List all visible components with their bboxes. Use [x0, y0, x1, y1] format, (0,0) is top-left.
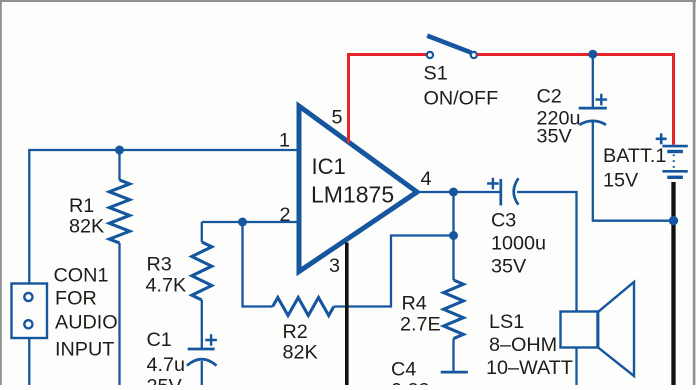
- battery positive + mark: [656, 133, 667, 144]
- svg-text:35V: 35V: [537, 126, 573, 148]
- node: output junction at pin 4: [449, 188, 458, 197]
- svg-text:1: 1: [279, 130, 290, 152]
- svg-text:C1: C1: [147, 329, 172, 351]
- wire: pin 4 output to C3: [417, 191, 501, 193]
- capacitor C1 (polarized, below R3): [188, 348, 215, 351]
- svg-text:4.7u: 4.7u: [147, 354, 186, 376]
- svg-text:4: 4: [421, 168, 432, 190]
- svg-text:C3: C3: [491, 210, 516, 232]
- resistor R4: [444, 280, 464, 339]
- label C4 0.22: [391, 359, 430, 390]
- label IC1 LM1875: [311, 154, 394, 208]
- svg-text:R1: R1: [69, 195, 94, 217]
- switch S1 (SPST, open): [427, 36, 471, 53]
- resistor R3: [201, 222, 203, 242]
- svg-text:2.7E: 2.7E: [400, 314, 441, 336]
- svg-text:AUDIO: AUDIO: [55, 312, 118, 334]
- resistor R1: [118, 150, 120, 180]
- label R1 82K: [69, 195, 104, 238]
- capacitor C3 (output coupling, polarized): [499, 179, 502, 206]
- svg-text:10–WATT: 10–WATT: [486, 357, 573, 379]
- svg-text:ON/OFF: ON/OFF: [424, 88, 499, 110]
- label C1 4.7u 25V: [147, 329, 186, 390]
- svg-text:0.22: 0.22: [391, 380, 430, 386]
- wire: battery negative (black) down page edge: [671, 182, 675, 385]
- loudspeaker LS1: [561, 282, 635, 376]
- battery BATT.1 15V: [662, 146, 687, 177]
- label C3 1000u 35V: [491, 210, 546, 278]
- wire: input net from CON1 up-right to op-amp pin 1: [29, 150, 300, 284]
- label LS1 8-OHM 10-WATT: [486, 311, 573, 379]
- label R2 82K: [283, 321, 318, 364]
- wire: C3 to loudspeaker: [517, 192, 577, 312]
- wire: pin 3 (black) down from op-amp: [345, 243, 349, 386]
- svg-text:35V: 35V: [491, 256, 527, 278]
- node: junction of C2 return on negative rail: [669, 216, 678, 225]
- connector CON1 (audio input socket): [12, 284, 48, 339]
- svg-text:C4: C4: [391, 359, 416, 381]
- wire: speaker return down (cut at page edge): [575, 348, 577, 386]
- svg-text:BATT.1: BATT.1: [603, 145, 666, 167]
- resistor R2: [273, 298, 334, 316]
- svg-text:1000u: 1000u: [491, 233, 546, 255]
- node: junction feedback/R4: [449, 231, 458, 240]
- label C2 220u 35V: [537, 86, 581, 148]
- label R3 4.7K: [146, 254, 187, 297]
- wire: red V+ from switch to battery positive: [477, 55, 673, 145]
- wire: pin 2 stub to R3/R2 junction: [202, 221, 300, 223]
- capacitor C4 (top plate, rest cut off at page edge): [441, 371, 468, 374]
- wire: C2 negative down and right to battery negative rail: [593, 121, 674, 221]
- wire: output node down to R4: [452, 192, 454, 280]
- svg-text:INPUT: INPUT: [55, 339, 114, 361]
- wire: red V+ from pin 5 up and right to switch S1: [349, 55, 427, 144]
- svg-text:3: 3: [329, 255, 340, 277]
- svg-text:R3: R3: [147, 254, 172, 276]
- svg-text:25V: 25V: [147, 376, 183, 386]
- svg-text:82K: 82K: [69, 216, 104, 238]
- svg-text:82K: 82K: [283, 342, 318, 364]
- svg-text:IC1: IC1: [312, 154, 346, 179]
- svg-text:FOR: FOR: [55, 288, 97, 310]
- wire: junction down-left to R2: [243, 222, 273, 307]
- svg-text:LS1: LS1: [489, 311, 524, 333]
- svg-text:8–OHM: 8–OHM: [489, 334, 557, 356]
- wire: CON1 lower pin going down (cut at page edge): [28, 338, 30, 385]
- label CON1 FOR AUDIO INPUT: [54, 265, 118, 361]
- label BATT.1 15V: [603, 145, 666, 192]
- svg-text:CON1: CON1: [54, 265, 109, 287]
- label R4 2.7E: [400, 293, 441, 336]
- svg-text:R2: R2: [283, 321, 308, 343]
- node: junction at pin 2 net: [238, 218, 247, 227]
- svg-text:R4: R4: [402, 293, 427, 315]
- svg-text:5: 5: [332, 107, 343, 129]
- node: junction of R1 with input wire: [115, 146, 124, 155]
- op-amp IC1 LM1875 (triangle): [299, 106, 417, 272]
- svg-text:S1: S1: [424, 63, 448, 85]
- capacitor C2 (supply decoupling, polarized): [592, 55, 594, 109]
- wire: R2 right end up to output node: [334, 236, 454, 307]
- node: C2 tap on V+ rail: [588, 50, 597, 59]
- svg-text:LM1875: LM1875: [311, 182, 394, 208]
- svg-text:15V: 15V: [603, 170, 639, 192]
- label S1 ON/OFF: [424, 63, 499, 110]
- svg-text:4.7K: 4.7K: [146, 275, 187, 297]
- svg-text:C2: C2: [537, 86, 562, 108]
